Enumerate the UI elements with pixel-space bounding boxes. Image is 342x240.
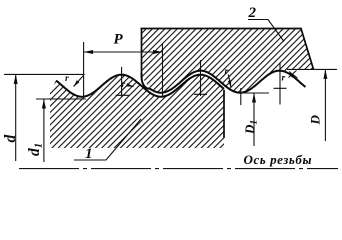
svg-text:r: r bbox=[122, 80, 126, 90]
svg-text:r: r bbox=[65, 74, 69, 84]
svg-text:d: d bbox=[2, 135, 19, 143]
svg-text:Ось резьбы: Ось резьбы bbox=[244, 152, 312, 167]
svg-text:D: D bbox=[308, 115, 323, 126]
svg-text:r: r bbox=[225, 67, 229, 77]
svg-text:1: 1 bbox=[85, 146, 93, 162]
svg-text:2: 2 bbox=[248, 5, 257, 21]
svg-text:r: r bbox=[282, 74, 286, 84]
svg-text:P: P bbox=[114, 32, 124, 48]
